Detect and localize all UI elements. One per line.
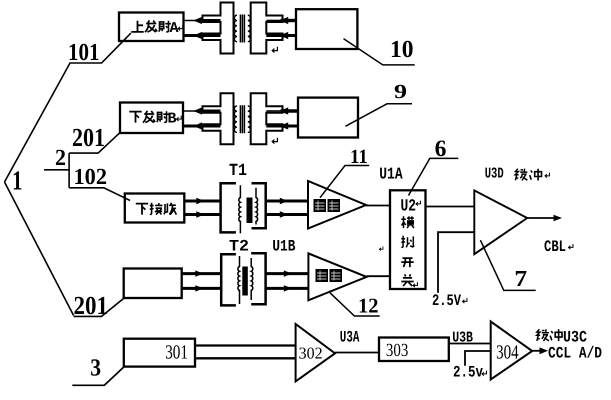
label buffer (缓冲) top: [515, 169, 527, 181]
return mark row2 transformer: [272, 138, 277, 144]
svg-text:3: 3: [90, 355, 101, 382]
wires T1 left with arrows: [184, 201, 221, 215]
svg-text:102: 102: [74, 164, 108, 189]
transformer row1 (isolation transformer A): [203, 3, 283, 54]
svg-text:301: 301: [165, 341, 188, 363]
svg-text:201: 201: [74, 291, 109, 320]
svg-text:10: 10: [390, 36, 414, 63]
wire amp11 to U2: [366, 205, 390, 207]
op-amp U1B (amp 12): [308, 253, 366, 300]
label 6 callout: [409, 158, 459, 195]
svg-text:2.5v: 2.5v: [453, 364, 483, 382]
box 10: [296, 9, 357, 49]
transformer T2: [221, 253, 265, 305]
svg-text:303: 303: [386, 341, 408, 361]
wire 302 to 303: [335, 352, 378, 354]
label 10 callout: [344, 39, 415, 65]
output wire CBL with arrow: [527, 217, 556, 219]
svg-text:201: 201: [72, 123, 105, 152]
label 11 callout: [320, 166, 369, 198]
svg-text:B: B: [168, 111, 177, 128]
svg-text:U1A: U1A: [379, 165, 402, 184]
box row4 (unlabeled): [124, 269, 182, 299]
wires T2 left with arrows: [182, 274, 222, 289]
svg-text:101: 101: [68, 39, 100, 66]
transformer T1: [221, 183, 266, 232]
wires row2 right with arrows: [266, 110, 282, 112]
wires T1 right with arrows: [266, 201, 308, 215]
transformer row2 (isolation transformer B): [203, 93, 283, 144]
svg-text:2: 2: [55, 145, 66, 170]
svg-text:U3D: U3D: [485, 166, 504, 183]
svg-text:6: 6: [435, 136, 447, 162]
op-amp 302 (U3A): [296, 324, 335, 381]
return mark row1 transformer: [272, 47, 277, 53]
svg-text:11: 11: [350, 146, 368, 168]
svg-text:7: 7: [514, 266, 527, 291]
box transmitter B (下发射B): [120, 103, 183, 134]
wires row1 left with arrows: [184, 20, 202, 22]
analog switch U2 box: [390, 190, 426, 289]
op-amp U3D buffer: [474, 190, 527, 254]
2.5V supply leg to U3D: [438, 232, 474, 293]
label 9 callout: [345, 104, 412, 127]
wires row1 right with arrows: [266, 20, 282, 22]
bus wires 301 to 302: [195, 344, 296, 346]
box transmitter A (上发射A): [119, 13, 184, 42]
svg-text:302: 302: [299, 344, 323, 363]
return mark left of U2: [379, 247, 383, 251]
node 2 bracket lines: [44, 133, 130, 201]
label 12 callout: [330, 293, 380, 316]
node 3 callout: [72, 367, 124, 385]
svg-text:9: 9: [394, 81, 407, 103]
label 7 callout: [480, 240, 535, 290]
2.5v supply leg to 304: [465, 351, 491, 366]
svg-text:T1: T1: [229, 162, 247, 181]
output arrow CCL A/D: [532, 350, 541, 352]
svg-text:12: 12: [358, 294, 379, 318]
wire amp12 to U2: [367, 275, 390, 277]
box 9: [298, 98, 358, 138]
svg-text:U2: U2: [401, 198, 417, 217]
node 1 callout lines: [5, 33, 132, 316]
svg-text:U1B: U1B: [272, 238, 295, 256]
svg-text:304: 304: [496, 342, 518, 364]
svg-text:A: A: [170, 20, 179, 37]
wire 303 to 304: [448, 343, 490, 345]
op-amp 304 (U3C): [491, 322, 533, 380]
wires row2 left with arrows: [183, 110, 202, 112]
box 301: [124, 339, 195, 367]
svg-text:U3A: U3A: [340, 329, 360, 347]
label buffer U3C: [537, 329, 549, 341]
wires T2 right with arrows: [266, 274, 309, 289]
svg-text:2.5V: 2.5V: [432, 292, 461, 310]
op-amp U1A (amp 11): [308, 181, 366, 229]
box receiver (下接收): [125, 194, 185, 223]
svg-text:CBL: CBL: [544, 238, 566, 256]
wire U2 to U3D: [426, 206, 475, 208]
svg-text:CCL A/D: CCL A/D: [548, 345, 602, 363]
svg-text:1: 1: [12, 165, 23, 196]
svg-text:T2: T2: [229, 238, 249, 256]
box 303: [379, 338, 449, 362]
